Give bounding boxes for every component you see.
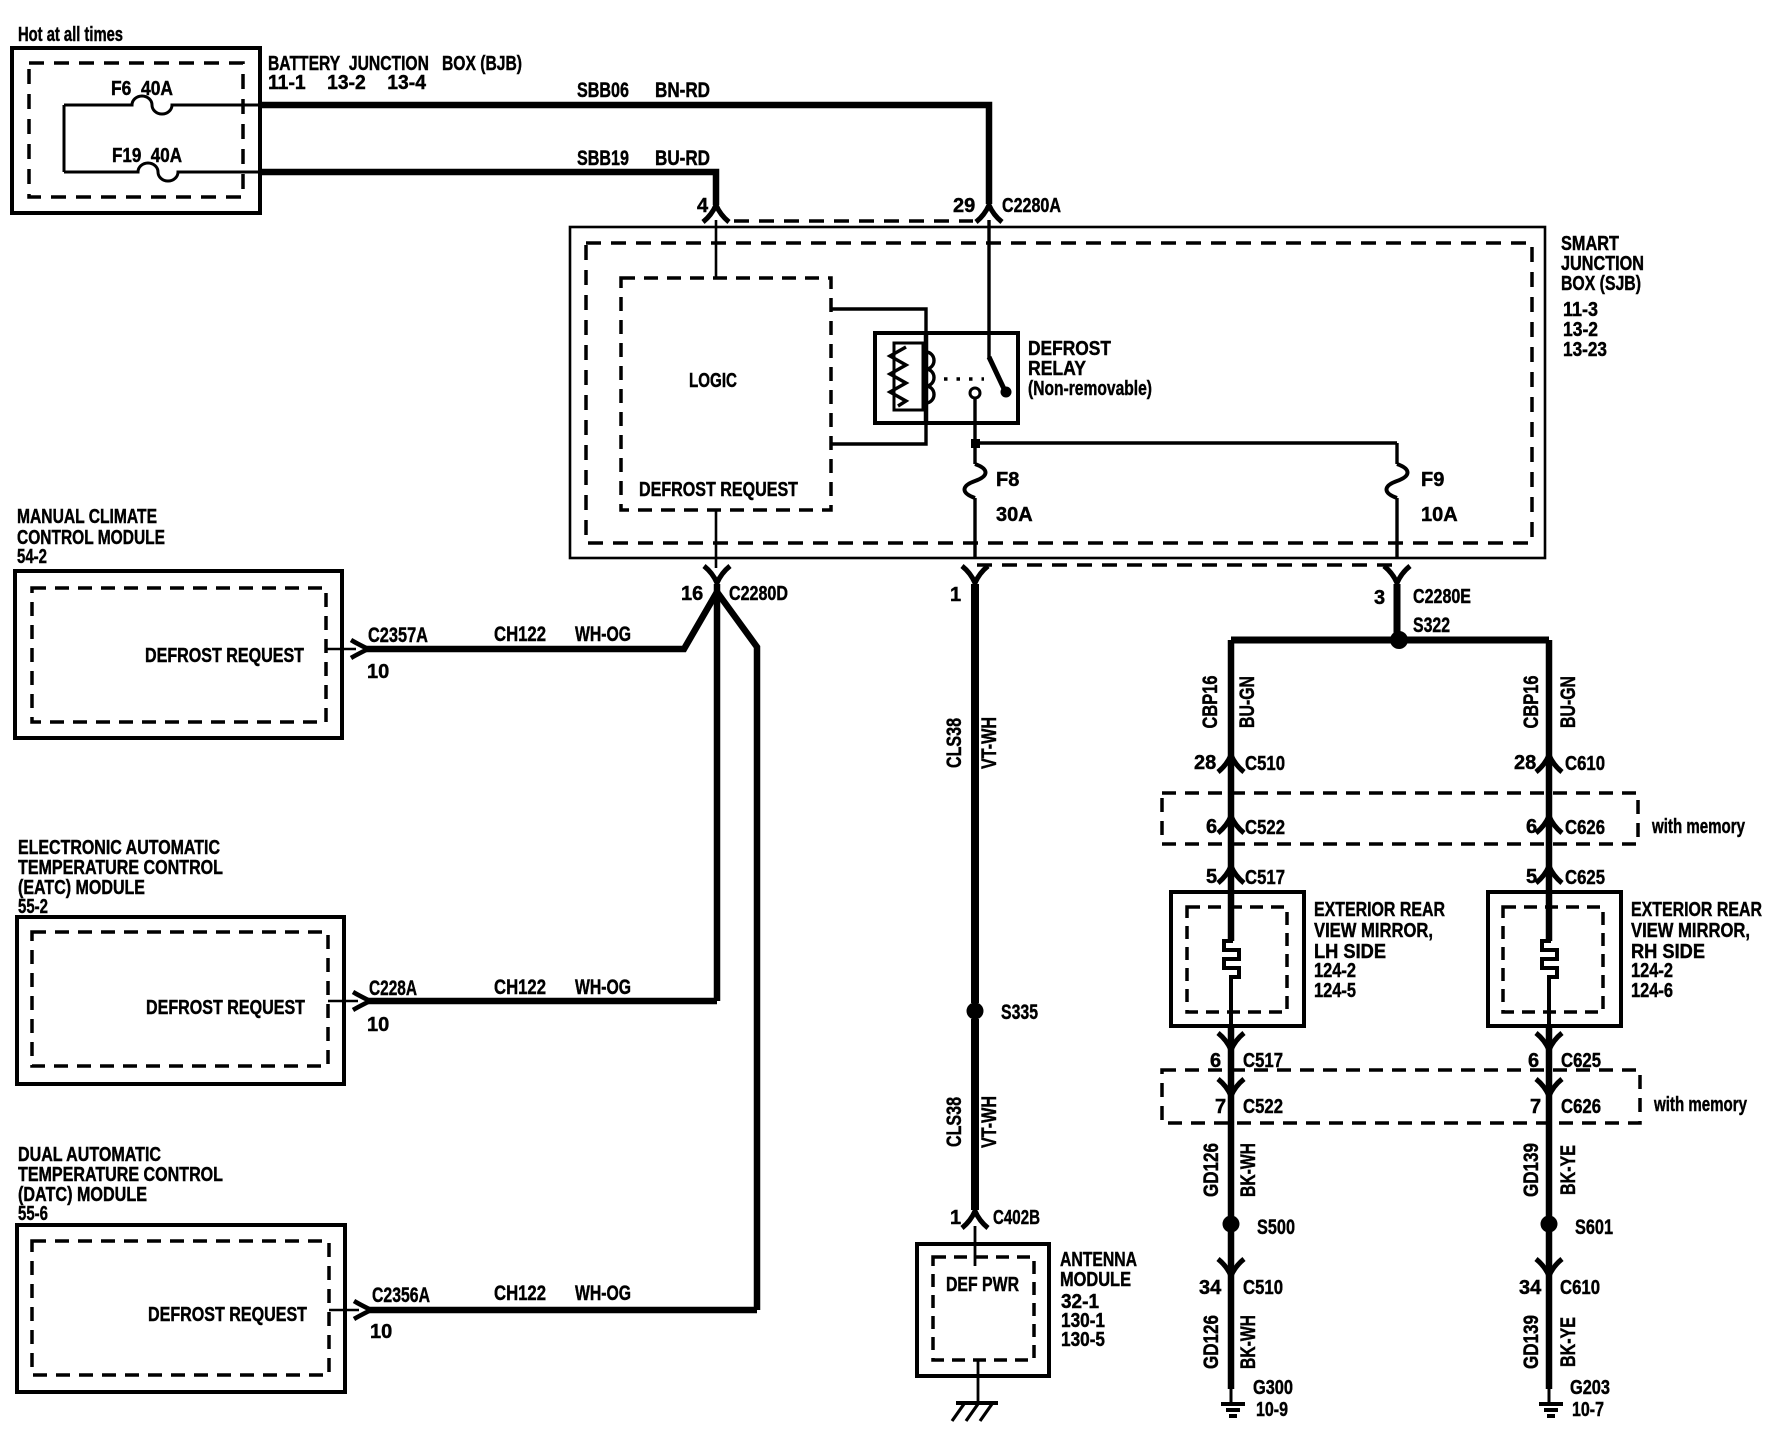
svg-text:13-2: 13-2 xyxy=(1563,319,1598,341)
wire relay coil bottom back to logic xyxy=(832,410,926,444)
svg-text:GD139: GD139 xyxy=(1520,1315,1543,1369)
svg-text:G203: G203 xyxy=(1570,1377,1610,1399)
wire F9 to SJB bottom pin 3 xyxy=(1395,498,1398,559)
svg-text:3: 3 xyxy=(1374,587,1385,609)
wire diagonal from junction to DATC vertical xyxy=(717,592,757,1310)
svg-text:(Non-removable): (Non-removable) xyxy=(1028,378,1152,400)
svg-text:LOGIC: LOGIC xyxy=(689,370,737,392)
svg-text:EXTERIOR REAR: EXTERIOR REAR xyxy=(1631,899,1762,921)
svg-text:11-3: 11-3 xyxy=(1563,299,1598,321)
ground G203 symbol xyxy=(1539,1404,1563,1416)
svg-text:JUNCTION: JUNCTION xyxy=(1561,253,1644,275)
svg-text:124-2: 124-2 xyxy=(1314,960,1356,982)
wire tail into ground G203 xyxy=(1548,1389,1551,1404)
connector C517 pin 5 arrow xyxy=(1218,866,1244,883)
connector C2280 dashed boundary between pins 1 and 3 xyxy=(977,563,1402,567)
fuse F19 element xyxy=(64,163,260,181)
connector C2357A arrow xyxy=(351,640,368,658)
svg-text:S500: S500 xyxy=(1257,1216,1295,1239)
svg-text:BK-WH: BK-WH xyxy=(1237,1315,1260,1369)
lead from DATC module to connector xyxy=(329,1309,359,1312)
svg-text:55-2: 55-2 xyxy=(18,896,48,918)
svg-text:6: 6 xyxy=(1206,816,1217,838)
wire SBB19 BU-RD thick run from F19 to SJB pin 4 xyxy=(260,172,716,205)
svg-text:4: 4 xyxy=(697,195,709,217)
connector C228A arrow xyxy=(353,992,370,1010)
battery junction box BJB outer box xyxy=(12,48,260,213)
DATC module outer box xyxy=(17,1225,345,1392)
svg-text:C522: C522 xyxy=(1245,817,1285,839)
lead from manual module to connector xyxy=(326,648,356,651)
svg-text:TEMPERATURE CONTROL: TEMPERATURE CONTROL xyxy=(18,857,223,879)
relay coil loops xyxy=(926,352,934,403)
svg-text:VIEW MIRROR,: VIEW MIRROR, xyxy=(1631,920,1750,942)
svg-text:C610: C610 xyxy=(1560,1277,1600,1299)
svg-text:DEFROST REQUEST: DEFROST REQUEST xyxy=(639,479,798,501)
svg-text:RELAY: RELAY xyxy=(1028,358,1087,380)
svg-text:124-6: 124-6 xyxy=(1631,980,1673,1002)
svg-text:34: 34 xyxy=(1199,1277,1222,1299)
svg-text:5: 5 xyxy=(1526,866,1537,888)
svg-text:28: 28 xyxy=(1194,752,1216,774)
connector C522 pin 6 arrow xyxy=(1218,816,1244,833)
svg-text:BU-GN: BU-GN xyxy=(1236,676,1259,728)
svg-text:54-2: 54-2 xyxy=(17,546,47,568)
connector C522 pin 7 arrow down xyxy=(1218,1079,1244,1096)
EATC module outer box xyxy=(17,917,344,1084)
svg-text:G300: G300 xyxy=(1253,1377,1293,1399)
svg-text:with memory: with memory xyxy=(1653,1094,1747,1116)
svg-text:CH122: CH122 xyxy=(494,1282,546,1305)
pin 1 arrow out of SJB xyxy=(962,566,988,583)
wire down to F9 xyxy=(1395,443,1398,464)
wire S322 horizontal branch xyxy=(1231,637,1549,644)
fuse F8 element xyxy=(965,464,986,498)
connector C2356A arrow xyxy=(354,1301,371,1319)
svg-text:BK-YE: BK-YE xyxy=(1557,1145,1580,1195)
wire CBP16 BU-GN left branch down xyxy=(1228,640,1235,941)
relay movable contact arm xyxy=(989,357,1005,391)
wire S500 to ground G300 xyxy=(1228,1224,1235,1389)
svg-text:C2280A: C2280A xyxy=(1002,195,1061,217)
fuse F9 element xyxy=(1387,464,1408,498)
battery junction box BJB inner dashed box xyxy=(29,63,243,197)
svg-text:1: 1 xyxy=(950,584,961,606)
wire junction vertical from pin 16 down to EATC corner xyxy=(714,584,721,1001)
smart junction box SJB inner dashed box xyxy=(586,243,1532,543)
wire CH122 WH-OG DATC run joining vertical xyxy=(369,1307,757,1314)
wire tail into ground G300 xyxy=(1230,1389,1233,1404)
svg-text:SMART: SMART xyxy=(1561,233,1619,255)
antenna module inner dashed box xyxy=(933,1257,1034,1360)
wire CH122 WH-OG manual module run with diagonal to junction xyxy=(366,592,717,649)
exterior mirror RH outer box xyxy=(1488,892,1621,1026)
svg-text:BOX (SJB): BOX (SJB) xyxy=(1561,273,1641,295)
wire mirror LH down to splice S500 xyxy=(1228,1026,1235,1224)
relay contact arm tip blob xyxy=(1001,387,1012,398)
wire from pin 4 down into logic box xyxy=(715,220,718,278)
svg-text:C522: C522 xyxy=(1243,1096,1283,1118)
wire into antenna module xyxy=(974,1226,977,1266)
svg-text:WH-OG: WH-OG xyxy=(575,623,631,646)
connector C510 pin 34 arrow down xyxy=(1218,1259,1244,1276)
svg-text:F9: F9 xyxy=(1421,469,1444,491)
svg-text:BN-RD: BN-RD xyxy=(655,79,710,102)
svg-text:1: 1 xyxy=(950,1207,961,1229)
svg-text:10-9: 10-9 xyxy=(1256,1399,1288,1421)
svg-text:SBB19: SBB19 xyxy=(577,147,629,170)
with memory dashed box upper xyxy=(1162,793,1638,844)
svg-text:Hot at all times: Hot at all times xyxy=(18,24,123,46)
wire F8 to SJB bottom pin 1 xyxy=(973,498,976,559)
pin 4 arrow into SJB xyxy=(703,205,729,222)
connector C625 pin 6 arrow down xyxy=(1536,1033,1562,1050)
svg-text:DEF PWR: DEF PWR xyxy=(946,1274,1019,1296)
connector C626 pin 7 arrow down xyxy=(1536,1079,1562,1096)
pin 3 arrow out of SJB xyxy=(1384,566,1410,583)
smart junction box SJB outer box xyxy=(570,227,1545,558)
connector C402B arrow xyxy=(962,1211,988,1228)
svg-text:55-6: 55-6 xyxy=(18,1203,48,1225)
svg-text:C2357A: C2357A xyxy=(368,624,428,647)
svg-text:VT-WH: VT-WH xyxy=(978,717,1001,769)
svg-text:10: 10 xyxy=(367,661,389,683)
exterior mirror RH inner dashed box xyxy=(1503,907,1603,1012)
svg-text:CBP16: CBP16 xyxy=(1520,676,1543,729)
svg-text:DEFROST REQUEST: DEFROST REQUEST xyxy=(145,645,304,667)
svg-text:C2280D: C2280D xyxy=(729,583,788,605)
svg-text:S601: S601 xyxy=(1575,1216,1613,1239)
svg-text:BK-WH: BK-WH xyxy=(1237,1143,1260,1197)
svg-text:124-5: 124-5 xyxy=(1314,980,1356,1002)
svg-text:130-5: 130-5 xyxy=(1061,1329,1105,1351)
fuse F6 element xyxy=(64,96,260,114)
pin 29 arrow into SJB xyxy=(976,205,1002,222)
relay actuation dotted link xyxy=(944,377,984,381)
svg-text:CH122: CH122 xyxy=(494,976,546,999)
svg-text:MODULE: MODULE xyxy=(1060,1269,1131,1291)
ground G300 symbol xyxy=(1221,1404,1245,1416)
connector C625 pin 5 arrow xyxy=(1536,866,1562,883)
antenna module outer box xyxy=(917,1244,1049,1376)
svg-text:7: 7 xyxy=(1215,1096,1226,1118)
svg-text:WH-OG: WH-OG xyxy=(575,1282,631,1305)
connector C517 pin 6 arrow down xyxy=(1218,1033,1244,1050)
svg-text:6: 6 xyxy=(1526,816,1537,838)
manual climate control module inner dashed box xyxy=(32,588,326,722)
svg-text:ELECTRONIC AUTOMATIC: ELECTRONIC AUTOMATIC xyxy=(18,837,220,859)
wire pin 3 to splice S322 xyxy=(1394,584,1401,640)
svg-text:GD139: GD139 xyxy=(1520,1143,1543,1197)
svg-text:C2356A: C2356A xyxy=(372,1284,430,1307)
mirror LH heater element xyxy=(1224,886,1239,1026)
svg-text:C510: C510 xyxy=(1243,1277,1283,1299)
svg-text:10: 10 xyxy=(370,1321,392,1343)
svg-text:C610: C610 xyxy=(1565,753,1605,775)
svg-text:ANTENNA: ANTENNA xyxy=(1060,1249,1137,1271)
splice S500 xyxy=(1223,1216,1240,1233)
svg-text:7: 7 xyxy=(1530,1096,1541,1118)
wire CLS38 VT-WH thick run S335 to C402B xyxy=(971,1019,979,1210)
svg-text:11-1 13-2 13-4: 11-1 13-2 13-4 xyxy=(268,72,427,94)
svg-text:BU-RD: BU-RD xyxy=(655,147,710,170)
svg-text:VT-WH: VT-WH xyxy=(978,1096,1001,1148)
relay resistor zigzag xyxy=(890,347,906,406)
wire junction to F8 xyxy=(973,441,976,464)
pin 16 arrow out of SJB xyxy=(704,566,730,583)
svg-text:EXTERIOR REAR: EXTERIOR REAR xyxy=(1314,899,1445,921)
svg-text:29: 29 xyxy=(953,195,975,217)
junction blob at relay output node xyxy=(971,439,980,448)
svg-text:MANUAL CLIMATE: MANUAL CLIMATE xyxy=(17,506,157,528)
EATC module inner dashed box xyxy=(32,932,328,1066)
exterior mirror LH outer box xyxy=(1171,892,1304,1026)
wire antenna module to ground xyxy=(977,1360,980,1403)
svg-text:DEFROST REQUEST: DEFROST REQUEST xyxy=(148,1304,307,1326)
DATC module inner dashed box xyxy=(32,1241,329,1375)
svg-text:DEFROST REQUEST: DEFROST REQUEST xyxy=(146,997,305,1019)
wire mirror RH down to splice S601 xyxy=(1546,1026,1553,1224)
wire SBB06 BN-RD thick run from F6 to SJB pin 29 xyxy=(260,105,989,204)
svg-text:CBP16: CBP16 xyxy=(1199,676,1222,729)
wire from pin 29 down to relay contact arm xyxy=(987,220,990,358)
svg-text:with memory: with memory xyxy=(1651,816,1745,838)
svg-text:BK-YE: BK-YE xyxy=(1557,1317,1580,1367)
svg-text:16: 16 xyxy=(681,583,703,605)
svg-text:C625: C625 xyxy=(1565,867,1605,889)
wire CBP16 BU-GN right branch down xyxy=(1546,640,1553,941)
splice S335 xyxy=(967,1003,984,1020)
svg-text:C402B: C402B xyxy=(993,1207,1040,1229)
wire CLS38 VT-WH thick run pin1 to S335 xyxy=(971,584,979,1003)
relay coil vertical conductor xyxy=(924,333,929,423)
connector C626 pin 6 arrow xyxy=(1536,816,1562,833)
svg-text:10-7: 10-7 xyxy=(1572,1399,1604,1421)
defrost relay outer box xyxy=(875,333,1018,423)
svg-text:C510: C510 xyxy=(1245,753,1285,775)
relay coil suppression resistor box xyxy=(894,343,923,410)
connector C610 pin 28 arrow xyxy=(1536,755,1562,772)
svg-text:34: 34 xyxy=(1519,1277,1542,1299)
svg-text:CH122: CH122 xyxy=(494,623,546,646)
svg-text:F8: F8 xyxy=(996,469,1019,491)
svg-text:C626: C626 xyxy=(1561,1096,1601,1118)
manual climate control module outer box xyxy=(15,571,342,738)
logic block dashed box xyxy=(621,278,831,510)
wire junction across to F9 xyxy=(973,441,1397,444)
svg-text:124-2: 124-2 xyxy=(1631,960,1673,982)
svg-text:WH-OG: WH-OG xyxy=(575,976,631,999)
svg-text:C517: C517 xyxy=(1245,867,1285,889)
svg-text:13-23: 13-23 xyxy=(1563,339,1607,361)
wire relay output down to junction xyxy=(973,398,976,443)
svg-text:TEMPERATURE CONTROL: TEMPERATURE CONTROL xyxy=(18,1164,223,1186)
svg-text:C228A: C228A xyxy=(369,977,417,1000)
wire logic output to relay coil top xyxy=(832,309,926,343)
mirror RH heater element xyxy=(1542,886,1557,1026)
connector C510 pin 28 arrow xyxy=(1218,755,1244,772)
with memory dashed box lower xyxy=(1162,1070,1640,1123)
connector C610 pin 34 arrow down xyxy=(1536,1259,1562,1276)
wire BJB feed bus vertical xyxy=(63,105,66,172)
ground symbol below antenna module xyxy=(956,1401,998,1405)
svg-text:28: 28 xyxy=(1514,752,1536,774)
svg-text:GD126: GD126 xyxy=(1200,1143,1223,1197)
svg-text:BU-GN: BU-GN xyxy=(1557,676,1580,728)
svg-text:10A: 10A xyxy=(1421,504,1458,526)
svg-text:10: 10 xyxy=(367,1014,389,1036)
wire CH122 WH-OG EATC run joining vertical xyxy=(368,998,717,1005)
svg-text:S322: S322 xyxy=(1413,614,1450,637)
svg-text:CLS38: CLS38 xyxy=(943,718,966,768)
svg-text:CLS38: CLS38 xyxy=(943,1097,966,1147)
connector C2280 dashed boundary between pins 4 and 29 xyxy=(734,219,973,223)
lead from EATC module to connector xyxy=(328,1000,358,1003)
svg-text:GD126: GD126 xyxy=(1200,1315,1223,1369)
svg-text:S335: S335 xyxy=(1001,1001,1038,1024)
svg-text:SBB06: SBB06 xyxy=(577,79,629,102)
splice S601 xyxy=(1541,1216,1558,1233)
exterior mirror LH inner dashed box xyxy=(1187,907,1287,1012)
wire logic defrost request output to pin 16 xyxy=(715,510,718,568)
svg-text:C2280E: C2280E xyxy=(1413,586,1471,608)
svg-text:VIEW MIRROR,: VIEW MIRROR, xyxy=(1314,920,1433,942)
relay fixed contact open circle xyxy=(970,388,980,398)
wire S601 to ground G203 xyxy=(1546,1224,1553,1389)
svg-text:DUAL AUTOMATIC: DUAL AUTOMATIC xyxy=(18,1144,161,1166)
svg-text:DEFROST: DEFROST xyxy=(1028,338,1111,360)
svg-text:C626: C626 xyxy=(1565,817,1605,839)
splice S322 xyxy=(1390,631,1408,649)
svg-text:30A: 30A xyxy=(996,504,1033,526)
svg-text:5: 5 xyxy=(1206,866,1217,888)
